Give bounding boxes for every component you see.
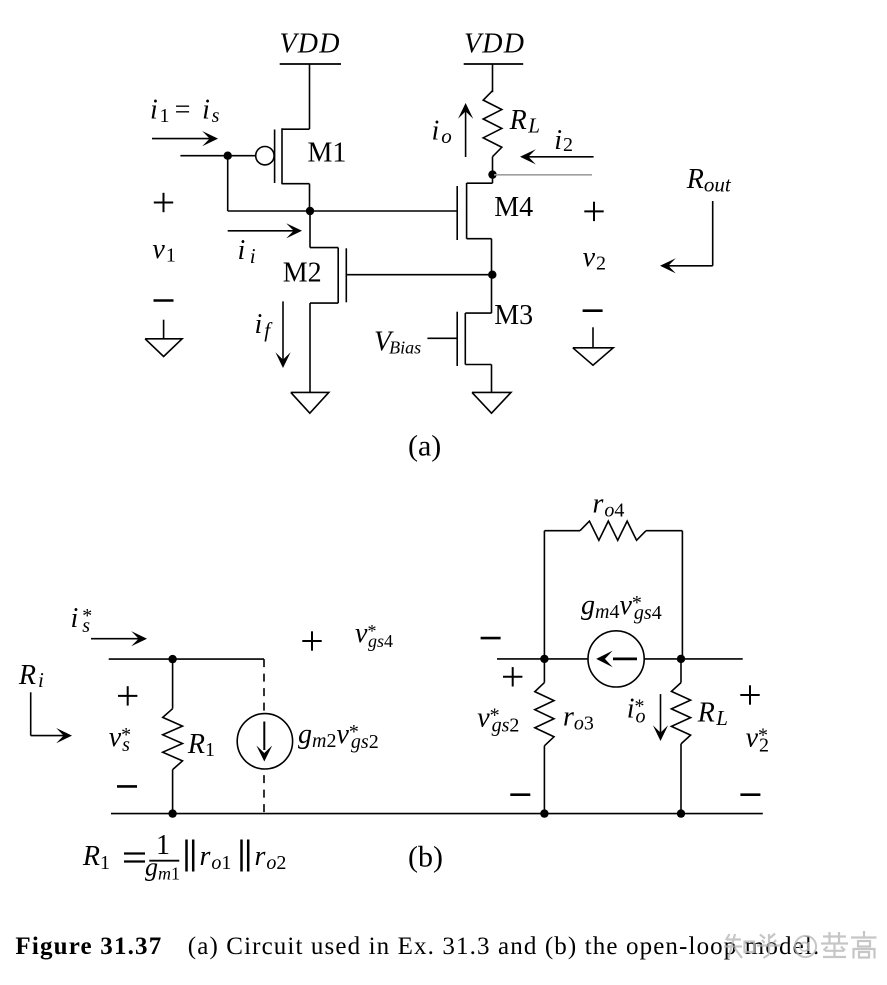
svg-text:i*s: i*s <box>71 603 93 637</box>
svg-text:Figure 31.37: Figure 31.37 <box>15 933 162 960</box>
svg-text:v*s: v*s <box>109 722 131 756</box>
svg-text:1: 1 <box>156 830 170 861</box>
svg-text:M4: M4 <box>494 192 533 223</box>
svg-text:(a): (a) <box>408 430 441 463</box>
svg-text:(b): (b) <box>408 841 443 874</box>
svg-text:i*o: i*o <box>627 694 646 728</box>
svg-text:v*2: v*2 <box>746 723 769 757</box>
svg-text:M3: M3 <box>494 300 533 331</box>
svg-text:M1: M1 <box>308 138 347 169</box>
svg-text:VDD: VDD <box>464 28 525 59</box>
svg-text:VDD: VDD <box>280 28 341 59</box>
svg-text:M2: M2 <box>283 258 322 289</box>
